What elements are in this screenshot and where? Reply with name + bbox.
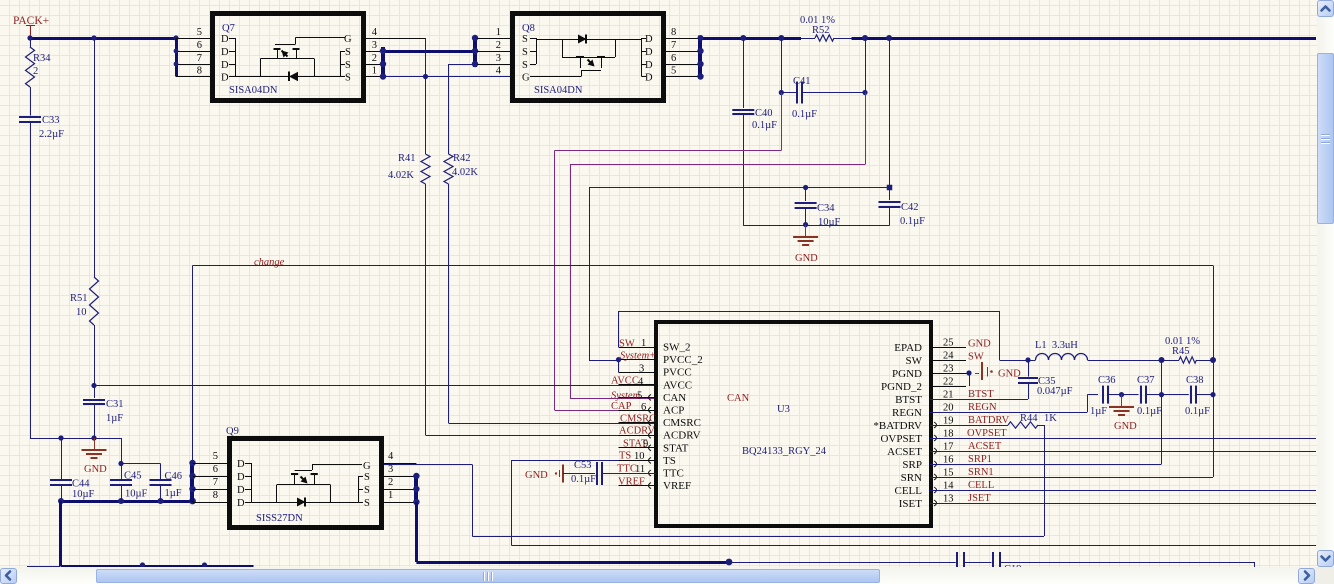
svg-text:10µF: 10µF [818, 217, 841, 228]
svg-text:R44: R44 [1020, 413, 1038, 424]
svg-text:STAT: STAT [663, 442, 689, 454]
svg-text:2: 2 [372, 53, 377, 64]
svg-text:7: 7 [197, 53, 202, 64]
svg-text:System+: System+ [620, 351, 656, 362]
svg-text:24: 24 [943, 351, 954, 362]
svg-text:R41: R41 [398, 153, 416, 164]
svg-text:VREF: VREF [663, 480, 691, 492]
svg-text:1: 1 [496, 27, 501, 38]
svg-text:23: 23 [943, 364, 954, 375]
svg-text:PVCC: PVCC [663, 367, 692, 379]
svg-text:SW_2: SW_2 [663, 342, 691, 354]
svg-text:S: S [345, 47, 351, 58]
svg-text:R52: R52 [812, 25, 830, 36]
svg-text:4: 4 [372, 27, 378, 38]
svg-text:5: 5 [637, 391, 642, 402]
svg-text:CAP: CAP [611, 401, 632, 412]
svg-text:TTC: TTC [617, 464, 637, 475]
svg-text:D: D [221, 34, 229, 45]
svg-text:JSET: JSET [968, 493, 991, 504]
svg-text:3: 3 [496, 53, 501, 64]
svg-text:0.1µF: 0.1µF [1185, 406, 1210, 417]
svg-text:D: D [645, 60, 653, 71]
svg-text:SW: SW [968, 352, 984, 363]
svg-text:22: 22 [943, 377, 954, 388]
svg-text:EPAD: EPAD [894, 342, 922, 354]
svg-text:GND: GND [525, 470, 548, 481]
svg-text:1K: 1K [1044, 413, 1057, 424]
svg-text:S: S [364, 498, 370, 509]
svg-text:8: 8 [197, 66, 202, 77]
svg-text:4: 4 [388, 451, 394, 462]
svg-text:OVPSET: OVPSET [967, 428, 1007, 439]
svg-text:C41: C41 [793, 76, 811, 87]
svg-text:SW: SW [619, 339, 635, 350]
svg-text:PVCC_2: PVCC_2 [663, 354, 703, 366]
svg-text:D: D [645, 47, 653, 58]
svg-text:Q8: Q8 [522, 23, 535, 34]
svg-text:20: 20 [943, 403, 954, 414]
svg-text:C53: C53 [574, 460, 592, 471]
svg-text:ISET: ISET [899, 498, 923, 510]
svg-text:S: S [522, 47, 528, 58]
svg-text:G: G [522, 73, 530, 84]
svg-text:R34: R34 [33, 53, 51, 64]
svg-text:D: D [645, 34, 653, 45]
svg-text:GND: GND [968, 339, 991, 350]
svg-text:C44: C44 [72, 479, 90, 490]
svg-text:CELL: CELL [968, 480, 994, 491]
svg-text:D: D [237, 498, 245, 509]
svg-text:C34: C34 [817, 203, 835, 214]
svg-text:G: G [344, 34, 352, 45]
svg-text:BTST: BTST [968, 389, 994, 400]
svg-text:C42: C42 [901, 202, 919, 213]
svg-text:S: S [345, 73, 351, 84]
svg-text:3: 3 [372, 40, 377, 51]
svg-text:REGN: REGN [968, 402, 997, 413]
svg-text:1µF: 1µF [106, 413, 123, 424]
svg-text:0.1µF: 0.1µF [900, 216, 925, 227]
svg-text:6: 6 [213, 464, 218, 475]
svg-text:AVCC: AVCC [611, 376, 639, 387]
svg-text:2: 2 [496, 40, 501, 51]
svg-text:ACSET: ACSET [887, 446, 922, 458]
svg-text:R51: R51 [70, 293, 88, 304]
svg-text:GND: GND [998, 369, 1021, 380]
svg-text:ACDRV: ACDRV [619, 426, 655, 437]
svg-text:6: 6 [671, 53, 676, 64]
svg-text:SRN: SRN [901, 472, 922, 484]
svg-text:C46: C46 [165, 471, 183, 482]
svg-text:D: D [237, 459, 245, 470]
svg-text:15: 15 [943, 468, 954, 479]
svg-text:SRN1: SRN1 [968, 467, 994, 478]
svg-text:2.2µF: 2.2µF [39, 129, 64, 140]
svg-text:C40: C40 [755, 108, 773, 119]
svg-text:0.1µF: 0.1µF [792, 109, 817, 120]
svg-text:SRP1: SRP1 [968, 454, 992, 465]
svg-text:BATDRV: BATDRV [968, 415, 1010, 426]
svg-text:5: 5 [671, 66, 676, 77]
svg-text:8: 8 [213, 490, 218, 501]
svg-text:0.1µF: 0.1µF [571, 474, 596, 485]
svg-text:8: 8 [671, 27, 676, 38]
svg-text:C38: C38 [1186, 375, 1204, 386]
svg-text:*BATDRV: *BATDRV [873, 420, 922, 432]
svg-text:BQ24133_RGY_24: BQ24133_RGY_24 [742, 446, 827, 457]
svg-text:CMSRC: CMSRC [663, 417, 701, 429]
svg-text:14: 14 [943, 481, 954, 492]
svg-text:S: S [364, 485, 370, 496]
svg-text:SW: SW [906, 355, 923, 367]
svg-text:4: 4 [638, 377, 644, 388]
svg-text:5: 5 [213, 451, 218, 462]
svg-text:9: 9 [643, 439, 648, 450]
svg-text:13: 13 [943, 494, 954, 505]
svg-text:16: 16 [943, 455, 954, 466]
svg-text:L1 3.3uH: L1 3.3uH [1035, 340, 1078, 351]
svg-text:ACSET: ACSET [968, 441, 1002, 452]
svg-text:0.1µF: 0.1µF [752, 120, 777, 131]
svg-text:D: D [221, 47, 229, 58]
svg-text:S: S [345, 60, 351, 71]
svg-text:CELL: CELL [895, 485, 923, 497]
svg-text:C37: C37 [1137, 375, 1155, 386]
svg-text:7: 7 [671, 40, 676, 51]
svg-text:SISA04DN: SISA04DN [229, 85, 278, 96]
svg-text:D: D [237, 472, 245, 483]
svg-text:AVCC: AVCC [663, 379, 692, 391]
svg-text:C36: C36 [1098, 375, 1116, 386]
svg-text:10µF: 10µF [72, 489, 95, 500]
svg-text:G: G [363, 461, 371, 472]
svg-text:5: 5 [197, 27, 202, 38]
svg-text:1: 1 [388, 490, 393, 501]
svg-text:change: change [254, 257, 285, 268]
svg-text:S: S [364, 472, 370, 483]
svg-text:ACDRV: ACDRV [663, 430, 701, 442]
svg-text:D: D [221, 60, 229, 71]
svg-text:CAN: CAN [663, 392, 686, 404]
svg-text:GND: GND [1114, 421, 1137, 432]
svg-text:3: 3 [388, 464, 393, 475]
svg-text:CAN: CAN [727, 393, 750, 404]
svg-text:D: D [237, 485, 245, 496]
svg-text:2: 2 [388, 477, 393, 488]
svg-text:0.047µF: 0.047µF [1037, 386, 1073, 397]
svg-text:S: S [522, 34, 528, 45]
svg-text:10: 10 [76, 307, 87, 318]
svg-text:GND: GND [84, 464, 107, 475]
svg-text:1: 1 [372, 66, 377, 77]
svg-text:1µF: 1µF [165, 488, 182, 499]
svg-text:SRP: SRP [902, 459, 922, 471]
svg-text:C31: C31 [106, 399, 124, 410]
svg-text:Q9: Q9 [226, 426, 239, 437]
svg-text:VREF: VREF [618, 477, 645, 488]
svg-text:4.02K: 4.02K [452, 167, 478, 178]
svg-text:BTST: BTST [895, 394, 922, 406]
svg-text:4.02K: 4.02K [388, 170, 414, 181]
svg-text:U3: U3 [777, 404, 790, 415]
svg-text:6: 6 [641, 402, 646, 413]
svg-text:D: D [645, 73, 653, 84]
svg-text:Q7: Q7 [222, 23, 235, 34]
svg-text:GND: GND [795, 253, 818, 264]
svg-text:REGN: REGN [892, 407, 922, 419]
svg-text:CMSRC: CMSRC [620, 414, 656, 425]
svg-text:10µF: 10µF [125, 489, 148, 500]
svg-text:25: 25 [943, 338, 954, 349]
svg-text:6: 6 [197, 40, 202, 51]
svg-text:R45: R45 [1172, 346, 1190, 357]
svg-text:PGND: PGND [892, 368, 922, 380]
svg-text:PGND_2: PGND_2 [881, 381, 922, 393]
svg-text:0.1µF: 0.1µF [1137, 406, 1162, 417]
svg-text:TS: TS [619, 451, 631, 462]
svg-text:TS: TS [663, 455, 676, 467]
svg-text:17: 17 [943, 442, 954, 453]
svg-text:C45: C45 [124, 471, 142, 482]
svg-text:19: 19 [943, 416, 954, 427]
svg-text:3: 3 [639, 364, 644, 375]
svg-text:2: 2 [33, 66, 38, 77]
svg-text:OVPSET: OVPSET [880, 433, 922, 445]
svg-text:SISS27DN: SISS27DN [256, 513, 303, 524]
svg-text:1: 1 [641, 338, 646, 349]
svg-text:S: S [522, 60, 528, 71]
svg-text:R42: R42 [453, 153, 471, 164]
svg-text:C33: C33 [42, 115, 60, 126]
svg-text:1µF: 1µF [1090, 406, 1107, 417]
svg-text:4: 4 [496, 66, 502, 77]
svg-text:10: 10 [634, 451, 645, 462]
svg-text:TTC: TTC [663, 468, 684, 480]
svg-text:21: 21 [943, 390, 954, 401]
svg-text:18: 18 [943, 429, 954, 440]
svg-text:7: 7 [213, 477, 218, 488]
svg-text:ACP: ACP [663, 405, 684, 417]
svg-text:SISA04DN: SISA04DN [534, 85, 583, 96]
svg-text:D: D [221, 73, 229, 84]
